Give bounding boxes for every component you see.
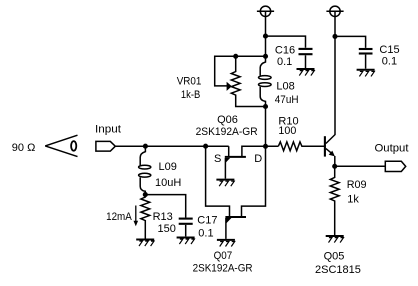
svg-text:Input: Input (95, 123, 121, 135)
svg-text:D: D (254, 153, 262, 165)
svg-text:2SC1815: 2SC1815 (315, 264, 361, 276)
svg-text:Q06: Q06 (217, 114, 238, 126)
svg-text:150: 150 (158, 223, 176, 235)
svg-text:2SK192A-GR: 2SK192A-GR (196, 126, 258, 138)
svg-text:C16: C16 (275, 45, 295, 57)
svg-text:Q05: Q05 (324, 251, 345, 263)
svg-text:C15: C15 (379, 44, 399, 56)
svg-text:47uH: 47uH (275, 94, 299, 106)
svg-text:R09: R09 (347, 179, 367, 191)
svg-text:VR01: VR01 (177, 75, 202, 87)
svg-text:0.1: 0.1 (382, 56, 397, 68)
svg-text:0.1: 0.1 (277, 56, 292, 68)
svg-text:2SK192A-GR: 2SK192A-GR (193, 263, 253, 275)
svg-text:1k: 1k (347, 194, 359, 206)
svg-text:90 Ω: 90 Ω (12, 142, 36, 154)
svg-text:0.1: 0.1 (198, 228, 213, 240)
svg-text:Output: Output (375, 142, 409, 154)
svg-text:R13: R13 (153, 211, 173, 223)
svg-text:10uH: 10uH (155, 177, 181, 189)
svg-text:S: S (214, 153, 221, 165)
svg-text:100: 100 (278, 125, 296, 137)
svg-text:1k-B: 1k-B (181, 89, 200, 101)
svg-text:C17: C17 (197, 214, 217, 226)
svg-text:L09: L09 (159, 161, 177, 173)
svg-text:Q07: Q07 (214, 250, 233, 262)
svg-text:12mA: 12mA (106, 211, 132, 223)
svg-text:L08: L08 (276, 80, 294, 92)
